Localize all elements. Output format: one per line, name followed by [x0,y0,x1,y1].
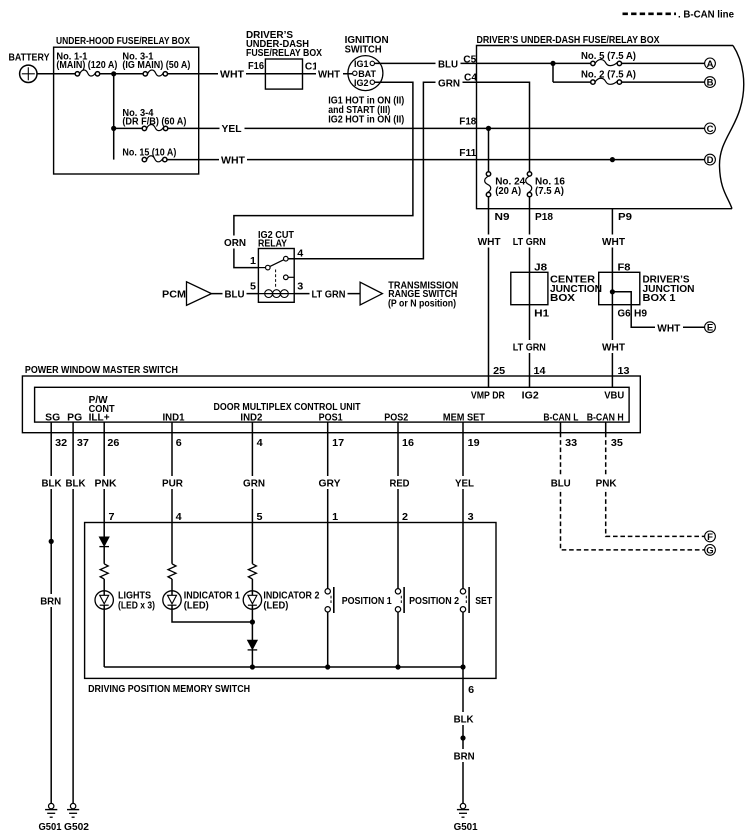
svg-text:17: 17 [332,438,344,449]
fuse No.3-4 (DR F/B 60A) symbol [142,126,146,130]
transmission range switch triangle [360,282,382,305]
wire battery to under-hood box (WHT main feed) [37,73,75,75]
wire diode D2 to bus [251,650,253,667]
relay switch arm [270,260,284,267]
svg-text:4: 4 [257,438,263,449]
svg-text:WHT: WHT [657,323,681,334]
connector D [705,154,716,165]
svg-text:LT GRN: LT GRN [312,289,346,300]
wire F18 junction down to fuse No.24 [488,128,490,171]
wire F11 to connector D [477,159,705,161]
svg-text:POSITION 1: POSITION 1 [342,596,392,607]
node junction F11 [610,157,615,162]
svg-text:IG2 HOT in ON (II): IG2 HOT in ON (II) [328,115,404,126]
svg-text:3: 3 [297,281,303,292]
LED indicator 2 [243,591,261,609]
label PNK on ILL+ [93,476,118,489]
node junction under-hood A [111,71,116,76]
svg-text:B-CAN H: B-CAN H [587,413,624,424]
connector F [705,531,716,542]
label BRN on pin6 wire [452,749,476,762]
svg-text:FUSE/RELAY BOX: FUSE/RELAY BOX [246,48,322,59]
svg-text:WHT: WHT [220,69,245,80]
svg-text:IG1: IG1 [354,59,369,69]
svg-text:VMP DR: VMP DR [471,390,505,401]
svg-text:(LED x 3): (LED x 3) [118,601,155,612]
svg-text:N9: N9 [495,212,510,223]
wire C1 to ignition switch BAT (WHT) [303,73,353,75]
ground G502 [70,803,75,808]
svg-text:1: 1 [250,256,256,267]
svg-text:DRIVER’S UNDER-DASH FUSE/RELAY: DRIVER’S UNDER-DASH FUSE/RELAY BOX [477,35,660,46]
wire pin5 to resistor R3 [251,523,253,564]
svg-text:PUR: PUR [162,479,184,490]
label LT GRN [310,287,348,300]
power window master switch outer box [22,376,640,433]
wire IG2 down-left to relay pin1 (ORN path) [234,82,413,267]
fuse No.16 (7.5A) symbol vertical [527,172,531,176]
svg-text:GRN: GRN [243,479,265,490]
under-dash box torn edge [719,46,743,209]
svg-text:C4: C4 [464,72,477,83]
wire position2 to bus [397,612,399,667]
svg-text:BLK: BLK [66,479,87,490]
node junction bus at position2 [395,664,400,669]
ground G501 right [460,803,465,808]
label BLK on pin6 wire [452,712,475,725]
label BLU on B-CAN L [549,476,573,489]
label PNK on B-CAN H [594,476,619,489]
svg-text:BRN: BRN [454,752,475,763]
svg-text:ILL+: ILL+ [89,413,110,424]
wire fuse1 to junction to fuse2 [100,73,143,75]
svg-text:WHT: WHT [318,69,341,80]
svg-text:G501: G501 [454,822,478,833]
label BLU [436,57,461,70]
label GRY on POS1 [317,476,342,489]
svg-text:LT GRN: LT GRN [513,343,546,354]
fuse No.3-1 (IG MAIN 50A) symbol [143,72,147,76]
wire B-CAN H pin35 stub [605,422,607,433]
label WHT on P9 run [600,235,627,248]
label WHT on No.15 feed [219,153,247,166]
svg-text:G6: G6 [618,309,631,320]
svg-text:2: 2 [402,512,408,523]
wire position1 to bus [327,612,329,667]
svg-text:A: A [707,59,714,70]
label WHT at C1 [316,67,343,80]
svg-text:RED: RED [390,479,410,490]
svg-text:IND1: IND1 [163,413,185,424]
label WHT at E [655,321,683,334]
svg-text:25: 25 [493,366,505,377]
under-hood fuse/relay box outline [54,47,199,174]
legend B-CAN dashed line sample [623,13,677,16]
wire resistor R3 to LED indicator2 [251,579,253,591]
label YEL on MEM SET [453,476,476,489]
svg-text:16: 16 [402,438,414,449]
wire indicator2 to diode D2 [251,609,253,640]
switch SET [460,589,465,594]
wire fuse No.15 to under-dash box F11 (WHT) [167,159,477,161]
wire pin6 to ground G501 (BLK/BRN) [462,678,464,803]
svg-text:14: 14 [534,366,546,377]
svg-text:PCM: PCM [162,289,186,300]
fuse No.2 (7.5A) symbol [591,80,595,84]
wire pin4 to resistor R2 [171,523,173,564]
fuse No.5 (7.5A) symbol [591,61,595,65]
svg-text:PNK: PNK [596,479,618,490]
svg-text:BRN: BRN [40,597,61,608]
relay NO contact pin4 [284,256,289,261]
connector A [705,58,716,69]
svg-text:F18: F18 [459,117,476,128]
svg-text:VBU: VBU [604,390,624,401]
svg-text:(LED): (LED) [184,601,209,612]
wire fuse No.2 to connector B [622,81,705,83]
node junction bus at position1 [325,664,330,669]
wire LED lights to bus [103,609,105,667]
svg-text:WHT: WHT [221,155,246,166]
svg-text:SWITCH: SWITCH [345,44,382,55]
relay coil [265,290,273,298]
wire B-CAN L pin33 stub [560,422,562,433]
splice node on SG wire [49,539,54,544]
wire B-CAN H dashed to connector F (PNK) [606,433,705,537]
LED lights (LED x 3) [95,591,113,609]
svg-text:6: 6 [176,438,182,449]
svg-text:DOOR MULTIPLEX CONTROL UNIT: DOOR MULTIPLEX CONTROL UNIT [214,402,362,413]
svg-text:13: 13 [618,366,630,377]
svg-text:BLK: BLK [42,479,63,490]
svg-text:WHT: WHT [602,343,626,354]
svg-text:4: 4 [176,512,182,523]
IG2 cut relay box [258,249,294,303]
svg-text:POWER WINDOW MASTER SWITCH: POWER WINDOW MASTER SWITCH [25,365,178,376]
fuse No.15 (10A) symbol [142,157,146,161]
svg-text:(MAIN) (120 A): (MAIN) (120 A) [56,60,117,71]
svg-text:BLU: BLU [438,59,458,70]
wire IND1 pin6 to memory switch pin4 (PUR) [171,422,173,522]
PCM output triangle [187,282,212,306]
svg-text:YEL: YEL [455,479,474,490]
wire resistor R1 to LED lights [103,579,105,591]
svg-text:UNDER-HOOD FUSE/RELAY BOX: UNDER-HOOD FUSE/RELAY BOX [56,36,190,47]
label LT GRN lower [511,340,548,353]
svg-text:SG: SG [45,413,60,424]
svg-text:LT GRN: LT GRN [513,237,546,248]
splice node on pin6 wire [460,735,465,740]
connector B [705,77,716,88]
resistor R2 [168,564,176,579]
svg-text:E: E [707,323,713,334]
label LT GRN on P18 run [511,235,548,248]
svg-text:37: 37 [77,438,89,449]
svg-text:5: 5 [257,512,263,523]
wire through F16 box [265,73,302,75]
svg-text:B: B [707,78,714,89]
driver's junction box 1 [599,272,640,304]
wire N9 to master switch pin 25 (WHT) [488,209,490,388]
label BLK on PG [64,476,87,489]
wire fuse No.16 to P18 [529,197,531,209]
svg-text:No. 5 (7.5 A): No. 5 (7.5 A) [581,51,636,62]
svg-text:H1: H1 [534,309,549,320]
svg-text:5: 5 [250,281,256,292]
svg-text:C: C [707,124,714,135]
svg-text:32: 32 [55,438,67,449]
svg-text:7: 7 [109,512,115,523]
wire F18 to connector C [477,127,705,129]
svg-text:POS2: POS2 [384,413,408,424]
svg-text:YEL: YEL [222,124,242,135]
fuse No.1-1 (MAIN 120A) symbol [75,72,79,76]
switch position 2 [395,589,400,594]
svg-text:BATTERY: BATTERY [9,53,50,64]
wire C5 to fuse No.5 [477,62,591,64]
wire fuse No.5 to connector A [622,62,705,64]
ground G501 left [49,803,54,808]
svg-text:GRY: GRY [319,479,341,490]
relay actuator dashed link [275,270,277,289]
svg-text:SET: SET [475,596,493,607]
svg-text:MEM SET: MEM SET [443,413,486,424]
svg-text:6: 6 [468,685,474,696]
label WHT lower P9 [600,340,627,353]
svg-text:19: 19 [468,438,480,449]
svg-text:F16: F16 [248,61,264,72]
wire pin3 to set switch [462,523,464,589]
svg-text:IG2: IG2 [354,78,369,88]
diode D1 [99,537,109,546]
svg-text:1: 1 [332,512,338,523]
wire resistor R2 to LED indicator1 [171,579,173,591]
node junction in driver's junction box [610,289,615,294]
svg-text:P9: P9 [618,212,632,223]
relay NC contact [284,275,289,280]
svg-text:B-CAN L: B-CAN L [543,413,578,424]
label BRN on SG wire [39,594,63,607]
wire MEM SET pin19 to memory switch pin3 (YEL) [462,422,464,522]
svg-text:P18: P18 [535,212,553,223]
svg-text:IND2: IND2 [240,413,262,424]
svg-text:PG: PG [67,413,82,424]
svg-text:ORN: ORN [224,238,246,249]
wire junction to fuse No.3-4 [114,127,143,129]
wire SG pin32 to ground (BLK/BRN) [50,422,52,803]
switch position 1 [325,589,330,594]
node junction under-hood B [111,126,116,131]
svg-text:G: G [706,545,713,556]
resistor R1 [100,564,108,579]
svg-text:4: 4 [297,248,303,259]
driving position memory switch box [85,523,496,679]
connector E [705,322,716,333]
label ORN [222,236,247,249]
center junction box [511,272,548,304]
node junction indicator link [250,619,255,624]
wire IG1 to C5 (BLU) [375,62,477,64]
svg-text:D: D [707,155,714,166]
vertical bus inside under-hood box [113,74,115,160]
connector F16/C1 box [265,59,302,89]
battery B1 symbol [20,65,37,82]
wire ILL+ pin26 to memory switch pin7 (PNK) [103,422,105,522]
wire indicator1 to IND2 line [172,609,252,622]
wire B-CAN L dashed to connector G (BLU) [561,433,705,550]
svg-text:POSITION 2: POSITION 2 [409,596,459,607]
svg-text:3: 3 [468,512,474,523]
svg-text:No. 2 (7.5 A): No. 2 (7.5 A) [581,70,636,81]
svg-text:IG2: IG2 [522,390,539,401]
connector G [705,545,716,556]
fuse No.24 (20A) symbol vertical [486,172,490,176]
wire fuse No.3-1 to F16 connector (WHT) [168,73,266,75]
node junction bus at diode D2 [250,664,255,669]
wire pin1 to position1 switch [327,523,329,589]
svg-text:PNK: PNK [95,479,118,490]
svg-text:WHT: WHT [602,237,626,248]
under-dash box outline with torn right edge [477,46,734,209]
node junction F18 [486,126,491,131]
wire P9 to master switch pin 13 (WHT) [611,209,613,388]
svg-text:BLU: BLU [551,479,571,490]
LED indicator 1 [163,591,181,609]
ignition switch body [348,56,383,91]
svg-text:F: F [707,532,713,543]
svg-text:C5: C5 [463,54,476,65]
svg-text:(LED): (LED) [263,601,288,612]
svg-text:G501: G501 [39,822,62,833]
label WHT on N9 run [476,235,503,248]
wire P18 to master switch pin 14 (LT GRN) [529,209,531,388]
label PUR on IND1 [160,476,185,489]
wire relay pin4 to C4 (GRN) [288,82,476,259]
resistor R3 [248,564,256,579]
label GRN [436,76,463,89]
common bus wire in memory switch [104,666,463,668]
wire PG pin37 to ground (BLK) [72,422,74,803]
node junction bus at set [460,664,465,669]
relay coil wire pin5 to pin3 [258,293,294,295]
label GRN on IND2 [241,476,266,489]
label BLK on SG [40,476,63,489]
wire diode D1 to resistor R1 [103,547,105,564]
wire PCM to relay pin5 (BLU) [212,293,259,295]
wire POS2 pin16 to memory switch pin2 (RED) [397,422,399,522]
wire fuse No.24 to N9 [488,197,490,209]
svg-text:35: 35 [611,438,623,449]
svg-text:BLU: BLU [225,289,245,300]
label BLU at PCM [223,287,247,300]
wire fuse No.3-4 to under-dash box F18 (YEL) [168,127,477,129]
svg-text:(IG MAIN) (50 A): (IG MAIN) (50 A) [122,60,190,71]
relay common contact [258,267,265,269]
svg-text:H9: H9 [634,309,647,320]
wire pin2 to position2 switch [397,523,399,589]
label YEL [220,122,245,135]
node junction C5 [550,61,555,66]
svg-text:GRN: GRN [438,78,460,89]
wire junction down to fuse No.2 [552,63,554,82]
wire C4 to fuse No.16 branch [477,82,530,172]
svg-text:BOX 1: BOX 1 [643,293,676,304]
svg-text:DRIVING POSITION MEMORY SWITCH: DRIVING POSITION MEMORY SWITCH [88,684,250,695]
connector C [705,123,716,134]
wire POS1 pin17 to memory switch pin1 (GRY) [327,422,329,522]
svg-text:(P or N position): (P or N position) [388,298,456,309]
wire IND2 pin4 to memory switch pin5 (GRN) [251,422,253,522]
svg-text:(20 A): (20 A) [495,186,521,197]
svg-text:F11: F11 [459,148,476,159]
svg-text:G502: G502 [64,822,89,833]
diode D2 [248,640,258,649]
svg-text:POS1: POS1 [319,413,343,424]
wire pin7 to diode D1 [103,523,105,538]
svg-text:(7.5 A): (7.5 A) [535,186,564,197]
wire relay pin3 to transmission range switch (LT GRN) [294,293,360,295]
svg-text:26: 26 [107,438,119,449]
wire H9 branch to connector E (WHT) [612,292,704,327]
wire to fuse No.2 [553,81,591,83]
wire set switch to bus and pin6 [462,612,464,678]
svg-text:. B-CAN line: . B-CAN line [678,10,734,21]
svg-text:BLK: BLK [454,715,475,726]
label RED on POS2 [388,476,412,489]
svg-text:33: 33 [565,438,577,449]
label WHT on battery feed [218,67,246,80]
svg-text:BOX: BOX [550,293,575,304]
door multiplex control unit inner box [35,387,630,422]
svg-text:WHT: WHT [478,237,502,248]
